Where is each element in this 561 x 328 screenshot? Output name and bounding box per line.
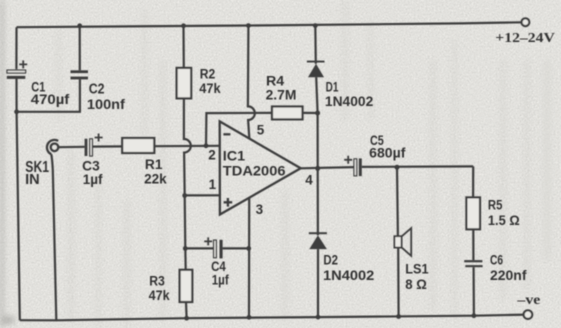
svg-text:1µf: 1µf — [83, 172, 103, 187]
wire C4 node to R3 — [184, 248, 187, 269]
wire C3 to R1 — [92, 145, 122, 147]
svg-text:1: 1 — [209, 177, 217, 192]
svg-text:R3: R3 — [149, 273, 165, 288]
wire R5 to C6 — [472, 229, 474, 260]
node pin1 — [182, 193, 187, 198]
wire R3 to bottom rail — [185, 302, 188, 318]
capacitor C2 — [17, 26, 88, 112]
svg-text:47k: 47k — [199, 81, 221, 96]
capacitor C3 — [85, 134, 103, 157]
diode D1 — [307, 26, 325, 114]
node LS1 tap — [395, 165, 400, 170]
svg-text:8 Ω: 8 Ω — [405, 277, 427, 292]
wire C5 to R5 corner — [362, 165, 473, 168]
wire R2 to pin1 node with hop over input wire — [184, 98, 191, 195]
svg-text:1N4002: 1N4002 — [323, 268, 374, 283]
capacitor C4 — [185, 237, 248, 258]
node R4/D1 — [315, 111, 320, 116]
wire left rail lower — [17, 79, 20, 321]
wire D1 node to output node — [317, 113, 319, 168]
wire corner down to R5 — [472, 166, 474, 197]
junction pin5 top rail — [246, 23, 251, 28]
op-amp IC1 — [220, 121, 301, 214]
svg-text:R2: R2 — [200, 67, 216, 82]
svg-text:2: 2 — [208, 147, 216, 162]
wire R4 to D1 line — [303, 112, 318, 114]
loudspeaker LS1 — [394, 167, 411, 316]
svg-text:220nf: 220nf — [490, 268, 527, 283]
svg-text:1µf: 1µf — [212, 273, 229, 288]
node output — [315, 166, 320, 171]
svg-text:22k: 22k — [144, 171, 167, 186]
diode D2 — [309, 168, 327, 317]
wire R1 to pin2 node — [154, 145, 219, 148]
svg-text:2.7M: 2.7M — [266, 88, 297, 103]
wire pin1 to op-amp — [185, 194, 220, 196]
svg-text:IC1: IC1 — [223, 149, 246, 164]
junction R3 bottom rail — [184, 316, 189, 321]
resistor R5 — [466, 197, 480, 229]
junction C6 bottom rail — [472, 313, 477, 318]
node C4 left — [183, 246, 188, 251]
wire bottom rail — [20, 315, 528, 321]
svg-text:5: 5 — [257, 123, 265, 138]
capacitor C5 — [344, 156, 362, 176]
svg-text:R4: R4 — [266, 74, 285, 89]
svg-text:470µf: 470µf — [31, 92, 70, 107]
svg-text:–ve: –ve — [516, 293, 540, 308]
svg-text:100nf: 100nf — [87, 96, 125, 112]
svg-text:LS1: LS1 — [405, 262, 429, 277]
resistor R1 — [122, 138, 154, 153]
junction C2/C1 rail — [14, 109, 19, 114]
svg-text:R5: R5 — [488, 197, 503, 212]
node pin2 — [204, 143, 209, 148]
svg-text:D2: D2 — [323, 252, 338, 267]
svg-text:D1: D1 — [326, 79, 339, 94]
junction D2 bottom rail — [316, 315, 321, 320]
svg-text:C2: C2 — [89, 81, 105, 97]
wire pin5: top rail down with hop over feedback wire — [248, 26, 255, 140]
junction LS1 bottom rail — [396, 314, 401, 319]
terminal -ve — [524, 310, 533, 319]
svg-text:4: 4 — [305, 172, 313, 187]
svg-text:+12–24V: +12–24V — [495, 31, 555, 46]
wire left rail upper — [15, 27, 17, 69]
wire top rail — [17, 22, 522, 27]
svg-text:680µf: 680µf — [369, 145, 406, 160]
wire C6 to bottom rail — [473, 267, 475, 316]
wire pin3 to bottom rail — [248, 197, 250, 317]
svg-text:47k: 47k — [149, 288, 170, 303]
resistor R2 — [177, 26, 192, 99]
svg-text:3: 3 — [256, 202, 264, 217]
capacitor C1 — [7, 60, 27, 79]
wire SK1 to C3 — [58, 146, 84, 149]
svg-text:C6: C6 — [490, 252, 503, 267]
resistor R4 — [272, 107, 303, 120]
connector SK1 — [47, 140, 58, 320]
svg-text:1N4002: 1N4002 — [325, 94, 373, 109]
resistor R3 — [180, 270, 193, 302]
junction R2 top rail — [181, 23, 186, 28]
wire output to C5 — [301, 167, 354, 168]
junction pin3 bottom rail — [247, 315, 252, 320]
wire pin1 node down to C4 node — [184, 196, 187, 249]
capacitor C6 — [464, 260, 482, 267]
junction D1 top rail — [313, 23, 318, 28]
node pin3/C4 — [246, 246, 251, 251]
svg-text:1.5 Ω: 1.5 Ω — [488, 213, 520, 228]
svg-text:TDA2006: TDA2006 — [223, 164, 286, 179]
terminal +V — [522, 18, 530, 26]
wire pin2 node up and over to R4 — [206, 113, 272, 146]
svg-text:IN: IN — [25, 172, 40, 188]
junction C2 top rail — [77, 23, 82, 28]
svg-text:R1: R1 — [145, 157, 163, 172]
